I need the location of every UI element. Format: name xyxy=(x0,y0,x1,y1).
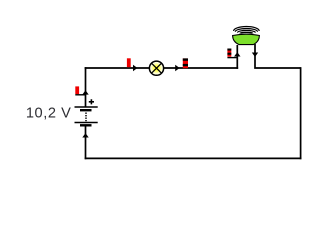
wire lamp right terminal to buzzer left leg xyxy=(164,67,238,69)
probe marker M4 stem xyxy=(227,57,237,59)
wire top-left corner to lamp left terminal xyxy=(85,67,150,69)
buzzer LS1 sound arc second xyxy=(235,29,257,32)
wire buzzer left leg (up into buzzer) xyxy=(236,45,238,69)
probe marker M1 red flag at battery top wire xyxy=(75,86,79,94)
wire battery positive terminal up to top-left corner xyxy=(85,67,87,107)
battery B1 plus polarity mark xyxy=(89,99,94,104)
buzzer LS1 sound arc third xyxy=(238,30,256,32)
buzzer LS1 sound arc outer xyxy=(234,26,260,31)
current arrow right after lamp xyxy=(175,65,179,71)
wire buzzer right leg (down from buzzer) xyxy=(254,44,300,69)
current arrow up on battery top wire xyxy=(82,90,88,94)
probe marker M3 striped flag right of lamp xyxy=(183,58,188,68)
battery B1 top short thick plate xyxy=(80,109,92,111)
battery B1 dashed multi-cell link xyxy=(85,113,87,122)
probe marker M4 striped flag at buzzer left leg xyxy=(227,49,231,57)
current arrow down on buzzer right leg xyxy=(252,53,258,57)
probe marker M2 red flag left of lamp xyxy=(127,58,131,67)
probe marker M1 stem xyxy=(75,94,85,96)
buzzer LS1 sound arc inner xyxy=(240,32,253,33)
current arrow up on battery bottom wire xyxy=(82,133,88,137)
battery B1 bottom long plate xyxy=(75,122,98,124)
buzzer LS1 green bowl body xyxy=(233,34,260,44)
wire bottom-left up to battery negative terminal xyxy=(85,127,87,160)
current arrow up on buzzer left leg xyxy=(234,52,240,56)
battery B1 top long plate xyxy=(75,106,98,108)
current arrow right before lamp xyxy=(133,65,137,71)
lamp L1 X cross xyxy=(152,63,162,73)
lamp L1 body circle xyxy=(149,61,163,75)
svg-text:10,2 V: 10,2 V xyxy=(26,105,72,121)
wire right side down xyxy=(300,67,302,159)
battery B1 bottom short thick plate xyxy=(80,124,92,126)
wire bottom run right-to-left xyxy=(85,157,302,159)
